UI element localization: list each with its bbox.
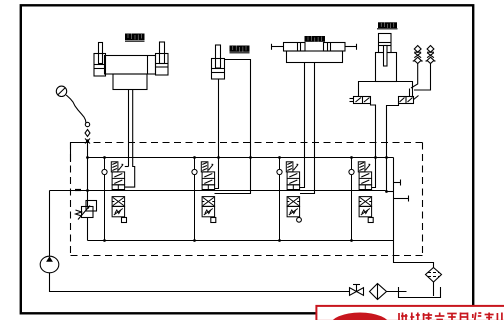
pressure bus P (upper) — [88, 157, 394, 159]
cylinder C1 right (vertical) — [156, 42, 169, 75]
manifold dashed boundary top — [71, 142, 423, 144]
wire: C2 piston-side line down — [215, 79, 219, 189]
relief valve RV — [76, 201, 97, 220]
cylinder C3 right (horizontal) — [324, 43, 357, 52]
cylinder C4 body — [379, 34, 392, 67]
wire: bleed2 stem — [414, 64, 431, 91]
wire: jog into valve1 top — [125, 166, 129, 168]
plug tick 1 — [400, 180, 402, 186]
wire: group3 pipe A down — [300, 62, 305, 188]
wire: pump suction down and right — [50, 273, 350, 292]
group 1 center block — [105, 56, 156, 75]
stack2 solenoid tab — [211, 218, 216, 223]
pressure gauge PG — [56, 86, 66, 96]
manifold dashed boundary left — [70, 143, 72, 256]
cylinder C4 outer tube — [376, 53, 397, 82]
wire: right collector vertical — [393, 158, 395, 241]
solid corner piece top-left of manifold — [71, 143, 88, 163]
return bus T (bottom) — [88, 240, 394, 242]
group 4 base flare — [359, 82, 413, 97]
valve V4L (2-position) — [350, 97, 371, 104]
wire: filter into tank — [433, 282, 435, 296]
wire: group1 pipe B down to valve 1 — [125, 89, 135, 187]
label: cylinder group 2 — [230, 46, 250, 52]
wire: group4 pipe A down — [371, 103, 376, 187]
underline label 2 — [230, 52, 250, 54]
return filter F2 (diamond) — [426, 268, 442, 283]
underline label 1 — [125, 40, 145, 42]
port stub with plug upper-right — [394, 182, 401, 184]
wire: relief to return bus — [87, 218, 89, 241]
cylinder C2 (vertical single) — [212, 45, 225, 79]
label: cylinder group 4 — [378, 22, 397, 28]
wire: return line from manifold to return filter — [394, 241, 434, 268]
stack4 solenoid tab — [368, 218, 373, 223]
suction strainer F1 (diamond) — [370, 284, 387, 300]
pump P1 — [40, 256, 59, 273]
wire: pump outlet up to main line — [49, 191, 51, 257]
wire: C2 rod-side line right and down — [215, 60, 251, 194]
junction tick on pump line — [75, 189, 81, 191]
air bleed valve 1 — [413, 46, 423, 64]
test coupling circle — [85, 122, 89, 126]
wire: group1 pipe A down to valve 1 — [128, 89, 130, 167]
wire: strainer to tank — [387, 291, 407, 293]
group 3 mounting bar — [287, 51, 343, 63]
check diamond — [85, 130, 90, 137]
watermark banner — [316, 306, 504, 320]
label: cylinder group 1 — [125, 34, 145, 41]
valve stack 3 — [277, 157, 300, 240]
wire: stack4 port B to collector — [387, 191, 394, 193]
manifold dashed boundary right — [422, 143, 424, 256]
wire: group4 pipe B down — [387, 103, 399, 191]
label: cylinder group 3 — [305, 36, 326, 42]
node: X junction vertical feed — [87, 141, 89, 207]
wire: bleed1 stem — [411, 64, 418, 89]
stack1 solenoid tab — [122, 218, 127, 223]
valve V4R (2-position) — [399, 89, 419, 104]
junction dots on buses — [86, 139, 388, 242]
group 1 base block — [113, 74, 147, 90]
cylinder C1 left (vertical) — [94, 43, 106, 77]
flexible hose to test point — [66, 95, 86, 124]
plug tick 2 — [408, 196, 410, 202]
manifold dashed boundary bottom — [71, 255, 423, 257]
valve stack 1 — [102, 157, 125, 240]
air bleed valve 2 — [426, 46, 436, 64]
wire: group3 pipe B down — [300, 62, 315, 194]
port stub with plug lower-right — [394, 198, 409, 200]
junction X at manifold corner — [85, 139, 90, 144]
oil tank (open box) — [399, 287, 441, 298]
valve stack 4 — [349, 157, 372, 240]
valve stack 2 — [192, 157, 215, 240]
stack3 solenoid tab — [297, 217, 302, 222]
main line from pump across manifold — [50, 190, 386, 192]
banner logo ellipse — [330, 313, 390, 320]
underline label 4 — [377, 28, 398, 30]
cylinder C3 left (horizontal) — [272, 43, 306, 52]
shut-off valve SV (suction) — [350, 285, 364, 296]
banner text — [399, 313, 502, 320]
